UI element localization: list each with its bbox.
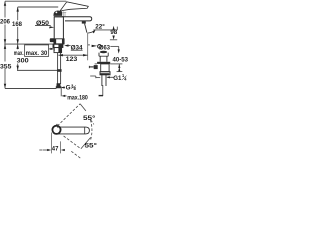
hose collars	[57, 69, 62, 72]
dimension 123	[58, 54, 87, 56]
mounting nut	[54, 48, 62, 53]
extra lower dash	[71, 151, 80, 158]
washer below counter	[53, 44, 63, 47]
label max.180 with leader	[63, 95, 67, 97]
svg-text:max.180: max.180	[67, 95, 88, 102]
rod travel leader	[90, 75, 96, 77]
lever pivot dome	[53, 11, 62, 16]
spout	[54, 17, 92, 21]
tick above circle	[56, 124, 58, 126]
svg-text:Ø63: Ø63	[99, 44, 110, 51]
svg-text:max. 30: max. 30	[26, 50, 48, 57]
dimension 206 line	[4, 1, 6, 17]
swivel ray lower dashed	[64, 136, 81, 149]
aerator	[82, 21, 86, 23]
tailpipe rod end	[102, 85, 104, 96]
second reference line (pivot top level)	[18, 6, 59, 8]
base escutcheon	[54, 39, 64, 44]
cartridge collar	[62, 12, 64, 17]
dimension 355 line	[4, 44, 6, 61]
swivel lower right leg	[81, 137, 91, 148]
popup flange neck	[99, 56, 101, 62]
max.30 leader arrow	[49, 48, 53, 50]
svg-text:355: 355	[0, 63, 12, 70]
label G3/8 with leader	[62, 87, 65, 89]
svg-text:55°: 55°	[83, 114, 96, 122]
pull knob marker	[88, 44, 90, 46]
svg-text:40-53: 40-53	[113, 57, 129, 64]
boxed label max.30	[25, 45, 49, 57]
top view spout circle	[52, 126, 60, 134]
popup flange base	[97, 62, 110, 64]
ball rod housing	[94, 65, 98, 69]
svg-text:Ø50: Ø50	[36, 20, 49, 27]
tailpipe	[101, 75, 103, 86]
faucet body	[54, 17, 63, 44]
svg-text:22°: 22°	[95, 22, 105, 30]
svg-text:55°: 55°	[85, 141, 98, 149]
stream line at aerator	[85, 24, 87, 33]
dimension 98	[113, 26, 115, 30]
lever handle blade	[60, 2, 89, 11]
hoses	[57, 53, 59, 84]
swivel ray upper dashed	[58, 104, 81, 126]
top reference line (lever tip level)	[5, 0, 66, 2]
pull rod	[60, 87, 62, 97]
dimension 168 arrows	[17, 7, 19, 12]
dimension max300 line	[17, 44, 19, 49]
top view spout pill	[57, 127, 89, 134]
svg-text:G1: G1	[113, 75, 122, 82]
ref line max300 bottom	[17, 69, 59, 71]
locknut	[100, 72, 110, 75]
label G1 1/4 with leader	[107, 76, 114, 78]
svg-text:max.: max.	[14, 50, 24, 57]
basin line	[95, 63, 97, 65]
stream angle arc arrow	[87, 30, 95, 33]
ref line 355 bottom	[5, 88, 57, 90]
svg-text:G: G	[66, 84, 71, 91]
swivel upper right leg	[80, 104, 86, 111]
spout outlet reference line	[93, 29, 117, 31]
ball rod	[89, 66, 93, 68]
swivel arc dashed	[90, 120, 92, 141]
extension line spout tip	[87, 34, 89, 61]
svg-text:300: 300	[17, 58, 29, 65]
popup plug cap	[100, 51, 107, 53]
popup flange upper	[98, 53, 100, 57]
svg-text:168: 168	[12, 21, 22, 28]
svg-text:98: 98	[110, 29, 117, 36]
dimension 206 arrows	[4, 1, 6, 6]
dimension 47	[50, 133, 52, 154]
svg-text:47: 47	[52, 146, 59, 153]
dimension 168 line	[17, 7, 19, 20]
svg-text:206: 206	[0, 18, 10, 25]
pop-up pull knob at body rear	[50, 38, 54, 42]
counter line	[4, 43, 64, 45]
popup body	[101, 64, 109, 72]
svg-text:123: 123	[66, 56, 78, 63]
hose end fitting	[56, 83, 61, 88]
